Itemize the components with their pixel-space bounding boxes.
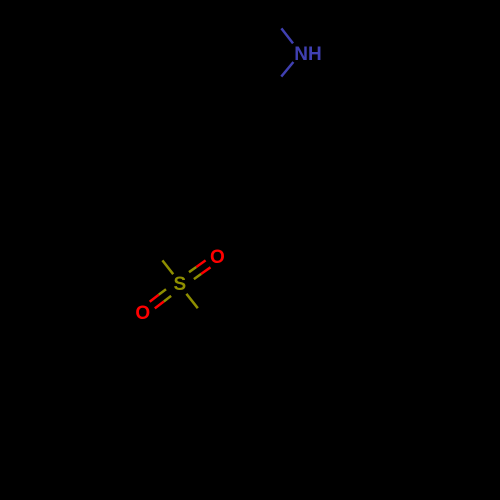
bond S-C chain (S half) bbox=[186, 294, 197, 308]
bond CH3-S (S half) bbox=[162, 260, 173, 274]
double bond S=O2 line B (O half) bbox=[155, 302, 164, 309]
double bond S=O1 line A (S half) bbox=[194, 274, 201, 279]
double bond S=O2 line A (S half) bbox=[159, 289, 166, 295]
double bond S=O2 line B (S half) bbox=[164, 296, 171, 302]
svg-text:O: O bbox=[210, 247, 225, 268]
bond N-C lower (N half) bbox=[281, 62, 293, 77]
bond C-N upper (N half) bbox=[281, 28, 293, 43]
double bond S=O1 line B (S half) bbox=[189, 267, 196, 272]
double bond S=O1 line B (O half) bbox=[196, 260, 205, 267]
svg-text:O: O bbox=[135, 303, 150, 324]
double bond S=O2 line A (O half) bbox=[150, 295, 159, 302]
double bond S=O1 line A (O half) bbox=[201, 267, 210, 274]
svg-text:S: S bbox=[174, 274, 187, 295]
svg-text:NH: NH bbox=[294, 44, 321, 65]
